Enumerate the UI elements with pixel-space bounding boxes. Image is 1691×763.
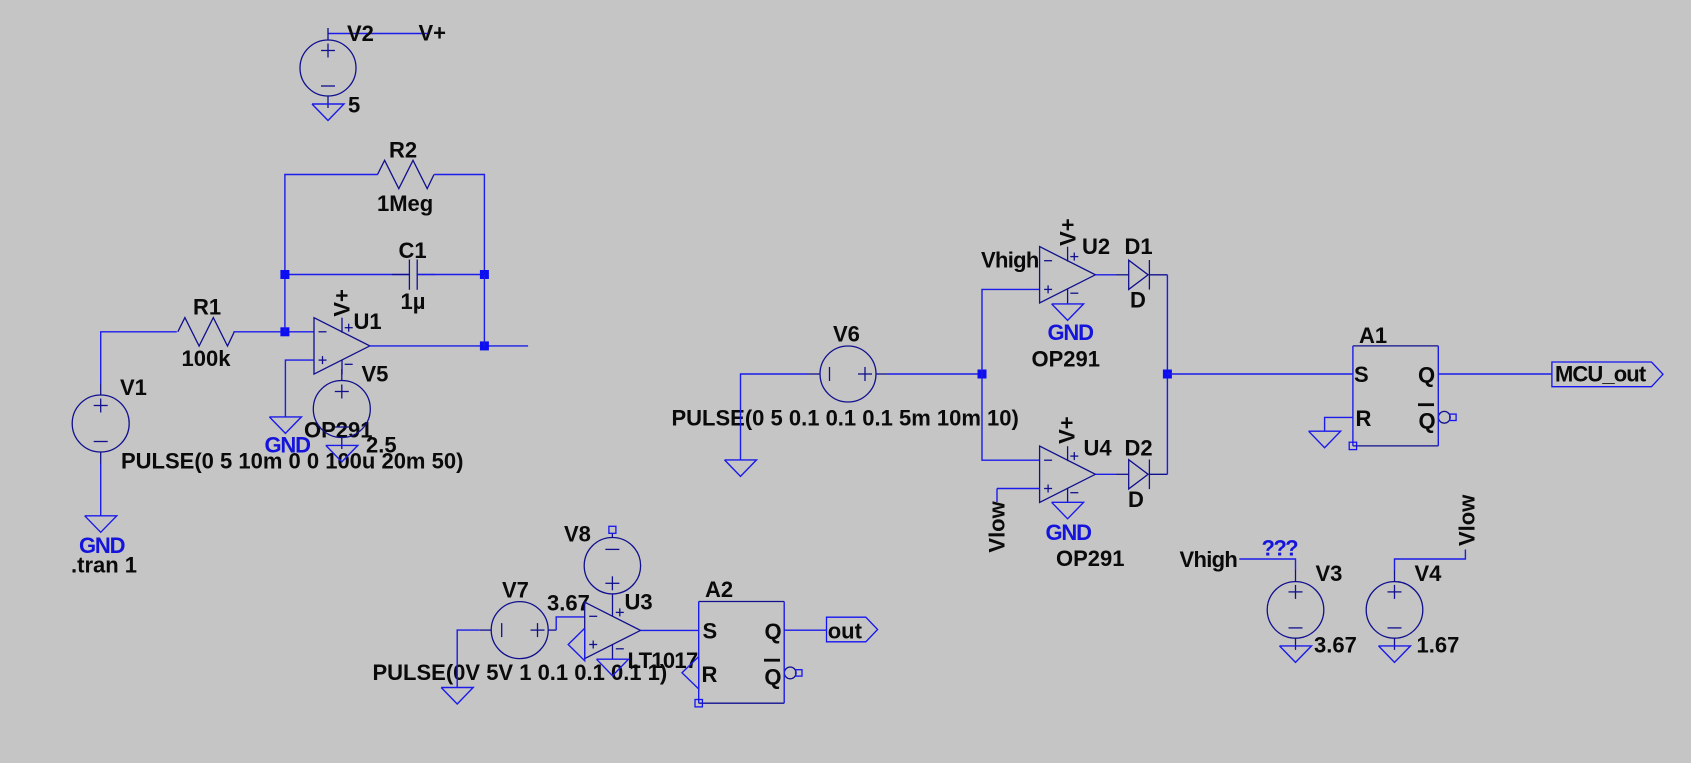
ground: [326, 445, 358, 462]
voltage source V1: [72, 384, 129, 464]
svg-text:PULSE(0V 5V 1 0.1 0.1 0.1 1): PULSE(0V 5V 1 0.1 0.1 0.1 1): [373, 660, 668, 685]
svg-text:V+: V+: [419, 21, 447, 46]
wire: [641, 629, 699, 631]
wire: [888, 373, 982, 375]
voltage source V4: [1366, 570, 1423, 650]
junction: [480, 270, 489, 279]
svg-text:V4: V4: [1415, 561, 1443, 586]
wire: [285, 175, 378, 332]
pin marker at A2 bottom: [695, 700, 702, 707]
diode D1: [1115, 260, 1167, 290]
svg-text:R: R: [1356, 406, 1372, 431]
svg-text:R1: R1: [193, 295, 221, 320]
ground: [725, 460, 757, 477]
svg-text:D2: D2: [1125, 436, 1153, 461]
resistor R1: [178, 318, 235, 346]
svg-text:V1: V1: [120, 375, 147, 400]
svg-text:GND: GND: [1046, 520, 1092, 545]
wire: [741, 374, 809, 460]
wire: [370, 345, 528, 347]
op-amp U1: [314, 318, 370, 375]
svg-text:Q: Q: [765, 619, 782, 644]
ground: [269, 417, 301, 434]
svg-text:out: out: [828, 619, 863, 644]
junction: [1163, 370, 1172, 379]
wire: [100, 464, 102, 516]
svg-text:V3: V3: [1316, 561, 1343, 586]
wire: [418, 274, 485, 276]
svg-text:GND: GND: [1048, 320, 1094, 345]
svg-text:Q: Q: [1418, 363, 1435, 388]
wire: [233, 331, 314, 333]
wire: [1438, 373, 1552, 375]
capacitor C1: [392, 260, 435, 290]
port out: [827, 617, 878, 642]
wire: [457, 630, 480, 687]
svg-text:U1: U1: [354, 309, 382, 334]
svg-text:1µ: 1µ: [401, 289, 426, 314]
wire: [997, 488, 1040, 490]
ground: [597, 659, 629, 676]
svg-text:Vlow: Vlow: [984, 500, 1009, 552]
svg-text:A2: A2: [705, 577, 733, 602]
ground: [1309, 431, 1341, 448]
svg-text:D: D: [1128, 487, 1144, 512]
svg-text:V+: V+: [1056, 218, 1081, 246]
voltage source V6: [808, 346, 888, 402]
pin marker of A1: [1450, 414, 1456, 420]
svg-text:S: S: [1354, 362, 1369, 387]
voltage source V5: [313, 369, 370, 449]
ground: [1379, 646, 1411, 663]
wire: [101, 332, 177, 384]
pin marker of V8: [609, 526, 616, 533]
svg-text:GND: GND: [265, 433, 311, 458]
svg-text:PULSE(0 5 0.1 0.1 0.1 5m 10m 1: PULSE(0 5 0.1 0.1 0.1 5m 10m 10): [672, 406, 1019, 431]
wire: [996, 489, 998, 503]
wire: [1239, 559, 1295, 570]
svg-text:U3: U3: [625, 590, 653, 615]
svg-text:V5: V5: [362, 362, 389, 387]
wire: [1325, 417, 1353, 431]
op-amp U4: [1040, 446, 1096, 503]
svg-text:MCU_out: MCU_out: [1555, 362, 1647, 387]
svg-text:V8: V8: [564, 522, 591, 547]
svg-text:C1: C1: [399, 238, 427, 263]
wire: [1095, 274, 1115, 276]
wire: [483, 275, 485, 346]
svg-text:V6: V6: [833, 322, 860, 347]
svg-text:3.67: 3.67: [1314, 633, 1357, 658]
svg-text:R2: R2: [389, 138, 417, 163]
svg-text:Vlow: Vlow: [1455, 494, 1480, 546]
junction: [978, 370, 987, 379]
svg-text:OP291: OP291: [304, 418, 373, 443]
wire: [434, 175, 484, 275]
resistor R2: [378, 160, 435, 188]
svg-text:V+: V+: [330, 289, 355, 317]
svg-text:Q: Q: [1419, 409, 1436, 434]
svg-text:D1: D1: [1125, 234, 1153, 259]
wire: [982, 289, 1040, 374]
pin marker at A1 bottom: [1349, 442, 1356, 449]
voltage source V8: [584, 534, 640, 594]
ground: [312, 104, 344, 121]
wire: [1095, 473, 1115, 475]
wire: [1167, 373, 1353, 375]
ground rotated at R input of A2: [682, 657, 699, 689]
svg-text:D: D: [1130, 288, 1146, 313]
ground: [1280, 646, 1312, 663]
diode D2: [1115, 460, 1167, 490]
svg-text:1Meg: 1Meg: [377, 191, 433, 216]
flip-flop A1: [1353, 346, 1450, 446]
port MCU_out: [1552, 362, 1663, 387]
junction: [280, 270, 289, 279]
ground rotated at U3 noninverting input: [568, 628, 585, 660]
junction: [480, 341, 489, 350]
wire: [285, 360, 314, 417]
svg-text:V2: V2: [347, 21, 374, 46]
ground: [441, 688, 473, 705]
svg-text:OP291: OP291: [1032, 347, 1101, 372]
voltage source V7: [480, 602, 557, 659]
svg-text:S: S: [703, 619, 718, 644]
svg-text:U2: U2: [1082, 234, 1110, 259]
svg-text:.tran 1: .tran 1: [71, 553, 137, 578]
ground: [1052, 502, 1084, 519]
svg-text:A1: A1: [1359, 323, 1387, 348]
op-amp U2: [1040, 247, 1096, 304]
wire: [982, 374, 1040, 460]
wire: [328, 33, 427, 35]
ground: [1052, 304, 1084, 321]
svg-text:Vhigh: Vhigh: [981, 248, 1039, 273]
svg-text:Vhigh: Vhigh: [1180, 547, 1238, 572]
svg-text:5: 5: [348, 93, 360, 118]
svg-text:U4: U4: [1084, 436, 1113, 461]
junction: [280, 327, 289, 336]
svg-text:2.5: 2.5: [366, 433, 397, 458]
voltage source V3: [1267, 570, 1324, 650]
wire: [1166, 374, 1168, 474]
svg-text:OP291: OP291: [1056, 546, 1125, 571]
svg-text:1.67: 1.67: [1417, 633, 1460, 658]
wire: [556, 617, 585, 630]
wire: [285, 274, 409, 276]
ground: [85, 516, 117, 533]
voltage source V2: [300, 28, 356, 108]
svg-text:V7: V7: [502, 578, 529, 603]
svg-text:V+: V+: [1055, 416, 1080, 444]
svg-text:???: ???: [1262, 536, 1299, 561]
wire: [1395, 550, 1466, 571]
wire: [784, 629, 826, 631]
wire: [1166, 275, 1168, 374]
svg-text:3.67: 3.67: [547, 591, 590, 616]
comparator U3: [585, 594, 641, 659]
pin marker of A2: [796, 670, 802, 676]
svg-text:LT1017: LT1017: [628, 648, 698, 673]
svg-text:100k: 100k: [182, 346, 232, 371]
svg-text:Q: Q: [764, 665, 781, 690]
svg-text:R: R: [702, 662, 718, 687]
flip-flop A2: [699, 602, 796, 704]
